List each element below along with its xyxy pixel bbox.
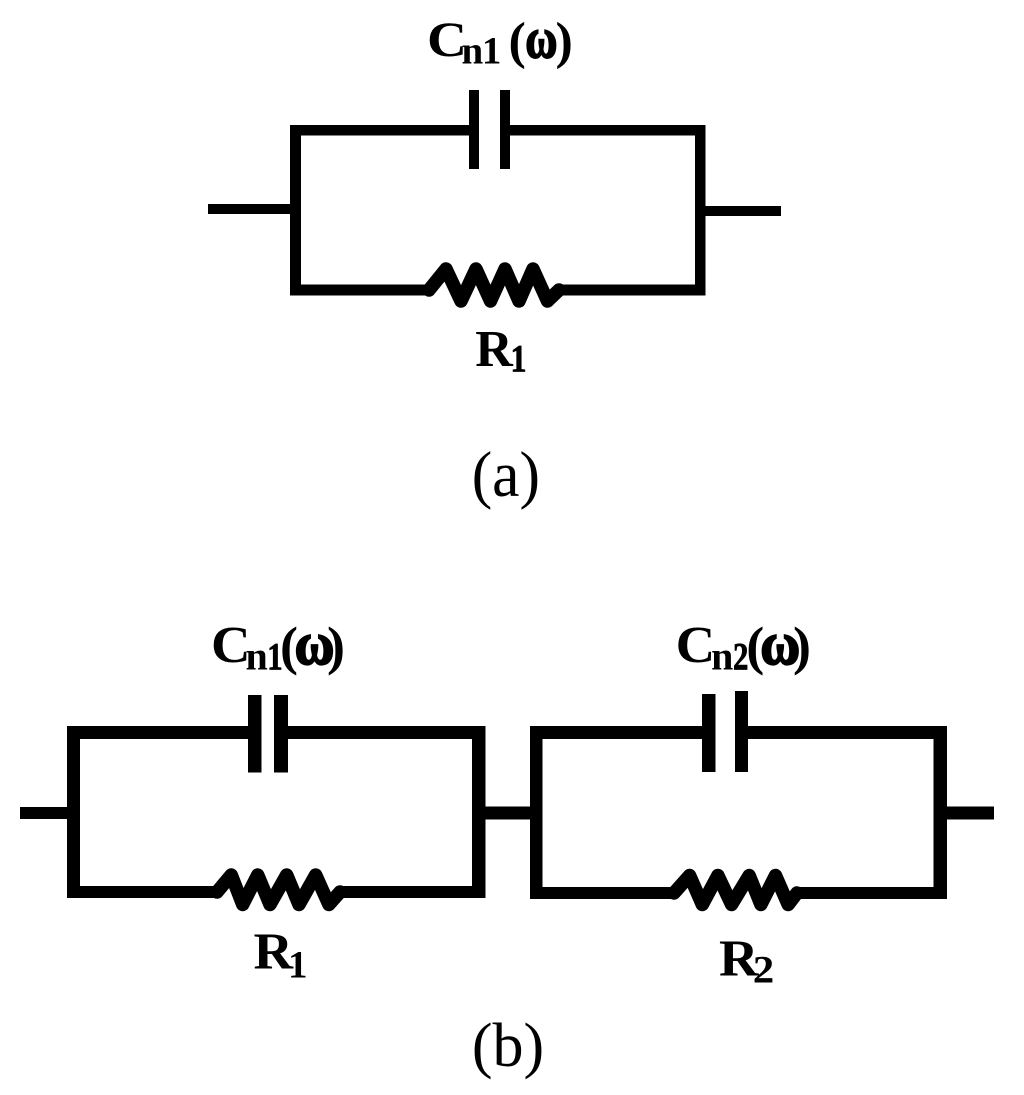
svg-text:): ) <box>793 616 811 676</box>
svg-text:n: n <box>462 30 484 73</box>
svg-text:1: 1 <box>288 943 308 986</box>
svg-text:C: C <box>676 617 716 674</box>
svg-text:): ) <box>327 616 345 676</box>
svg-text:): ) <box>556 13 573 70</box>
svg-text:1: 1 <box>482 30 502 73</box>
svg-text:(: ( <box>509 13 526 70</box>
svg-text:(a): (a) <box>472 439 540 511</box>
svg-text:n: n <box>246 633 268 678</box>
svg-text:n: n <box>711 633 733 678</box>
svg-text:2: 2 <box>753 949 775 992</box>
svg-text:ω: ω <box>525 8 557 71</box>
svg-text:R: R <box>475 321 514 378</box>
svg-text:1: 1 <box>511 338 527 381</box>
svg-text:(b): (b) <box>472 1012 544 1080</box>
